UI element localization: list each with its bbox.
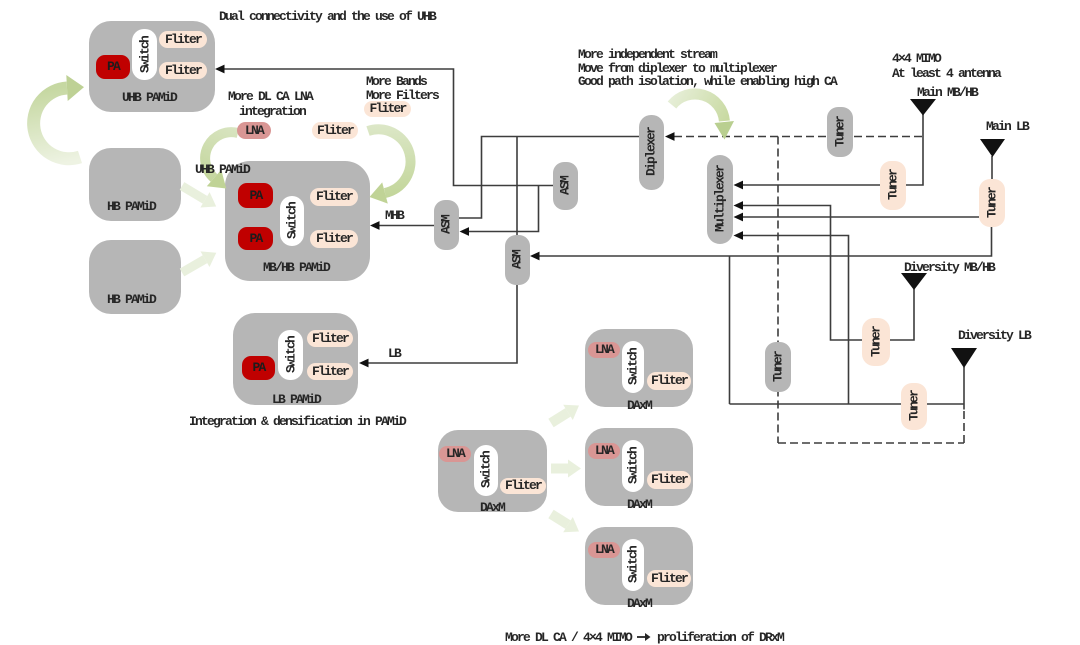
green arrowhead HB 1 (200, 192, 216, 207)
wire Diversity LB antenna drop (963, 367, 965, 410)
green arrow HB PAMiD 1 to MB/HB (182, 186, 205, 200)
caption integration densification (189, 415, 405, 429)
arrowhead into Diplexer (665, 132, 675, 141)
wire branch down into ASM A1 (469, 186, 539, 232)
filter in DAxM 1 (647, 372, 691, 390)
label LB PAMiD (272, 392, 320, 407)
arrowhead MHB into MB/HB PAMiD (370, 221, 380, 230)
label ASM A1 (439, 216, 454, 234)
caption more bands (366, 75, 426, 89)
PA 1 in MB/HB PAMiD (238, 183, 273, 208)
filter in DAxM source (500, 478, 546, 494)
filter 1 in MB/HB PAMiD (310, 188, 358, 206)
filter 2 in LB PAMiD (307, 363, 353, 380)
green arrow DAxM to DAxM 3 (551, 514, 568, 525)
block HB PAMiD 2 (89, 240, 181, 314)
caption more filters (366, 89, 438, 103)
block MB/HB PAMiD (225, 161, 370, 281)
antenna Main MB/HB (910, 99, 936, 116)
filter in DAxM 2 (647, 471, 691, 489)
block DAxM 1 (585, 329, 693, 407)
switch label DAxM 1 (626, 349, 641, 385)
green arrowhead HB 2 (201, 251, 217, 267)
pill ASM A1 (434, 200, 459, 250)
arrowhead into Multiplexer pin2 (734, 201, 744, 210)
wire Diversity LB line to Multiplexer (742, 236, 849, 405)
label ASM A2 (510, 251, 525, 269)
label Tuner T1 (886, 170, 901, 200)
label Diversity MB/HB (904, 261, 994, 275)
switch in DAxM 2 (622, 440, 644, 492)
green arc over Diplexer (672, 94, 724, 121)
caption more independent stream (578, 48, 836, 89)
antenna Diversity LB (951, 348, 977, 368)
green arc Fliter arrowhead (370, 182, 388, 203)
label Tuner T4 (907, 391, 922, 421)
filter in DAxM 3 (647, 570, 691, 587)
label Tuner gray top (833, 117, 848, 147)
switch in LB PAMiD (278, 330, 303, 380)
label DAxM source (480, 500, 504, 515)
label DAxM 1 (627, 398, 651, 413)
badge Fliter floating right (364, 101, 411, 117)
pill Tuner T2 (979, 179, 1005, 227)
arrowhead into ASM A2 (530, 252, 540, 261)
filter 1 in UHB PAMiD (159, 31, 207, 48)
switch label DAxM 3 (626, 547, 641, 583)
arrowhead into Multiplexer pin4 (734, 231, 744, 240)
pill Tuner T4 (901, 383, 927, 430)
wire Diversity LB horizontal through Tuner T4 (730, 403, 965, 405)
dashed bottom link (778, 442, 964, 444)
switch label MB/HB PAMiD (285, 203, 300, 239)
pill Tuner gray bottom (765, 342, 791, 392)
filter 1 in LB PAMiD (307, 330, 353, 347)
green arrow HB PAMiD 2 to MB/HB (182, 259, 205, 272)
LNA in DAxM 2 (588, 443, 620, 459)
green loop arrow HB to UHB PAMiD (34, 88, 80, 159)
wire Main MB/HB antenna through Tuner T1 to Multiplexer (742, 114, 923, 185)
wire Tuner T2 to Multiplexer (742, 216, 979, 218)
caption bottom DRxM (505, 631, 783, 645)
PA in UHB PAMiD (96, 55, 130, 79)
arrowhead into UHB PAMiD (215, 65, 225, 74)
LNA in DAxM 3 (588, 542, 620, 558)
green arrow DAxM to DAxM 1 (551, 412, 568, 423)
label Main LB (986, 120, 1028, 134)
wire from right bus into UHB PAMiD Fliter (224, 69, 553, 186)
label MHB (385, 209, 403, 223)
green arc Diplexer arrowhead (715, 121, 735, 140)
label LB (388, 347, 400, 361)
pill ASM A2 (505, 235, 530, 285)
caption more DL CA LNA (228, 90, 312, 104)
switch label DAxM source (479, 452, 494, 488)
block DAxM source (438, 430, 547, 512)
switch in DAxM 1 (622, 341, 644, 393)
arrowhead LB into LB PAMiD (359, 359, 369, 368)
pill Tuner gray top (827, 107, 853, 157)
label Tuner gray bottom (771, 352, 786, 382)
label Diplexer (644, 128, 659, 176)
arrowhead into Multiplexer pin1 (734, 181, 744, 190)
LNA in DAxM 1 (588, 342, 620, 358)
arrowhead into ASM A1 (460, 227, 470, 236)
badge LNA floating (237, 122, 271, 139)
green arrowhead DAxM 1 (563, 405, 579, 420)
label Main MB/HB (917, 86, 977, 100)
label Diversity LB (958, 329, 1030, 343)
green loop arrowhead (66, 75, 84, 101)
green arc LNA arrowhead (207, 170, 227, 189)
caption integration (239, 105, 305, 119)
wire Diversity MB/HB antenna through Tuner T3 to Multiplexer (742, 206, 914, 341)
block DAxM 3 (585, 527, 693, 605)
green arrowhead DAxM 3 (563, 517, 579, 532)
switch label DAxM 2 (626, 448, 641, 484)
label MB/HB PAMiD (263, 260, 329, 275)
label HB PAMiD 2 (107, 292, 155, 307)
wire ASM A1 to Diplexer (459, 137, 639, 219)
green arrow DAxM to DAxM 2 (551, 464, 568, 474)
caption dual connectivity (219, 10, 435, 24)
switch label UHB PAMiD (138, 37, 153, 73)
switch in MB/HB PAMiD (280, 196, 304, 246)
block HB PAMiD 1 (89, 148, 181, 221)
PA 2 in MB/HB PAMiD (238, 227, 273, 250)
block LB PAMiD (233, 313, 358, 405)
block UHB PAMiD (89, 21, 215, 112)
caption at least 4 antenna (892, 67, 1000, 81)
pill Tuner T1 (880, 161, 906, 210)
pill Diplexer (639, 115, 664, 190)
switch in UHB PAMiD (132, 29, 157, 80)
block DAxM 2 (585, 428, 693, 506)
filter 2 in UHB PAMiD (159, 62, 207, 79)
label UHB PAMiD floating (195, 163, 249, 177)
label UHB PAMiD (122, 90, 176, 105)
wire branch down from LB bus to Diversity LB line (729, 256, 731, 404)
antenna Main LB (980, 139, 1005, 157)
wire Main LB antenna into Tuner T2 (991, 156, 993, 180)
pill ASM A3 (553, 162, 578, 210)
LNA in DAxM source (439, 446, 471, 462)
pill Multiplexer (707, 155, 733, 244)
label Tuner T3 (869, 327, 884, 357)
filter 2 in MB/HB PAMiD (310, 230, 358, 248)
label ASM A3 (558, 177, 573, 195)
green arc Fliter into MB/HB PAMiD (368, 129, 411, 193)
label Tuner T2 (985, 188, 1000, 218)
wire Diplexer bus down to ASM A2 (516, 137, 518, 236)
antenna Diversity MB/HB (901, 273, 927, 290)
switch in DAxM 3 (622, 539, 644, 591)
pill Tuner T3 (862, 318, 890, 366)
badge Fliter floating center (312, 122, 358, 139)
label DAxM 3 (627, 596, 651, 611)
switch label LB PAMiD (284, 337, 299, 373)
switch in DAxM source (474, 445, 498, 496)
label Multiplexer (713, 166, 728, 232)
caption 4x4 MIMO (892, 52, 940, 66)
label DAxM 2 (627, 497, 651, 512)
PA in LB PAMiD (242, 356, 275, 380)
wire MHB from ASM A1 to MB/HB PAMiD (379, 225, 434, 227)
dashed wire Diplexer to Main MB/HB antenna line (674, 136, 923, 138)
wire Main LB tuner down and left into ASM A2 (539, 227, 992, 256)
green arrowhead DAxM 2 (568, 460, 581, 478)
dashed riser to Diversity LB line (963, 407, 965, 443)
arrowhead into Multiplexer pin3 (734, 213, 744, 222)
dashed vertical branch through gray Tuner T5 (777, 137, 779, 444)
wire LB from ASM A2 to LB PAMiD (368, 285, 517, 363)
label HB PAMiD 1 (107, 199, 155, 214)
green arc LNA into MB/HB PAMiD (205, 132, 238, 178)
